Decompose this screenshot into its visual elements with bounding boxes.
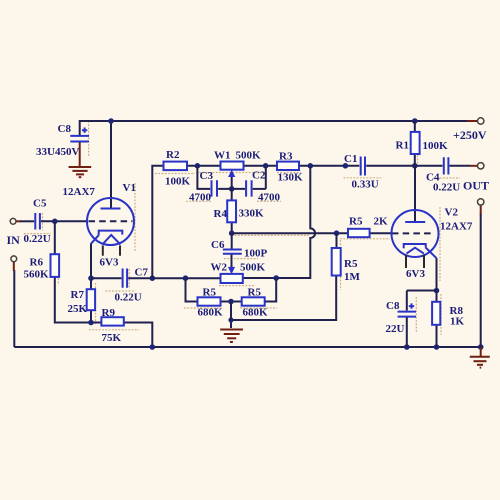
wire: V1 plate lead to rail xyxy=(110,121,112,209)
terminal OUT signal xyxy=(478,163,484,169)
svg-text:0.22U: 0.22U xyxy=(115,292,142,304)
node: junction R1 bottom / C4 / V2 plate xyxy=(412,163,418,169)
tube V2 plate xyxy=(405,221,425,223)
potentiometer W1 body xyxy=(221,162,244,170)
wire: C6 top lead xyxy=(231,233,233,248)
capacitor C8 (33U450V) top lead already in rail; plates xyxy=(70,136,89,142)
ground bottom right xyxy=(470,357,490,368)
wire: R5 2K right to V2 grid xyxy=(370,232,392,234)
wire: riser from R3 junction with hop over grid wire, down to W2 right xyxy=(243,166,315,278)
svg-text:100P: 100P xyxy=(244,248,268,260)
svg-text:C2: C2 xyxy=(252,170,266,182)
tube V2 heater xyxy=(407,248,424,254)
tan mark under 4700 right xyxy=(257,200,281,202)
resistor R2 xyxy=(164,162,188,171)
wire: maroon stub to +250V terminal xyxy=(467,120,477,122)
svg-text:R5: R5 xyxy=(203,287,217,299)
svg-text:4700: 4700 xyxy=(189,192,212,204)
wire: W1 wiper stem xyxy=(231,176,233,189)
node: junction R1 on rail xyxy=(412,118,418,124)
svg-text:0.22U: 0.22U xyxy=(433,182,460,194)
tan mark beside R6 xyxy=(57,265,59,285)
resistor R5 (2K) xyxy=(348,229,370,237)
svg-text:IN: IN xyxy=(7,233,21,247)
tan mark beside V1 xyxy=(134,183,136,251)
svg-text:OUT: OUT xyxy=(463,179,489,193)
svg-text:330K: 330K xyxy=(239,208,265,220)
wire: R4 bottom lead xyxy=(231,222,233,233)
svg-text:75K: 75K xyxy=(102,332,122,344)
resistor R7 xyxy=(87,289,95,310)
wire: maroon stub to OUT terminal xyxy=(470,165,477,167)
wire: R8 bottom lead xyxy=(436,325,438,347)
tan mark under W1 xyxy=(196,172,266,174)
tan mark under R3 xyxy=(277,172,301,174)
wire: maroon stub bottom right ground xyxy=(480,347,482,356)
wire: V1 grid dashed xyxy=(89,220,133,222)
wire: +250V top rail xyxy=(80,121,467,136)
capacitor C1 plates xyxy=(361,157,365,176)
svg-text:500K: 500K xyxy=(240,262,266,274)
tan mark under C7 xyxy=(106,290,136,292)
svg-text:V1: V1 xyxy=(123,182,136,194)
node: junction W2 left / R5 left branch xyxy=(183,275,189,281)
terminal +250V xyxy=(478,118,484,124)
wire: C4 right to OUT xyxy=(450,165,471,167)
node: junction at C1 left pin xyxy=(343,163,349,169)
svg-text:4700: 4700 xyxy=(258,192,281,204)
node: junction rail right corner xyxy=(478,344,484,350)
tan mark beside C7 xyxy=(128,269,130,288)
node: junction ground tee xyxy=(228,317,233,322)
tan mark beside R4 xyxy=(236,201,238,223)
tan mark beside R5 1M xyxy=(340,240,342,290)
wire: bottom ground rail xyxy=(14,346,480,348)
node: junction cathode / C7 / R7 xyxy=(88,275,94,281)
tan mark under R9 xyxy=(89,329,139,331)
node: junction R4 / C6 / grid wire xyxy=(229,230,235,236)
wire: R2 right to W1 left xyxy=(187,165,221,167)
arrow: W2 wiper arrowhead down xyxy=(228,267,235,274)
node: junction R9 net on rail xyxy=(150,344,156,350)
tan mark beside R7 xyxy=(95,283,97,324)
wire: OUT return riser xyxy=(480,214,482,347)
svg-text:0.33U: 0.33U xyxy=(352,179,379,191)
resistor R6 xyxy=(51,254,60,277)
svg-text:R5: R5 xyxy=(349,216,363,228)
svg-text:C3: C3 xyxy=(200,170,214,182)
wire: W1 right to R3 left xyxy=(244,165,278,167)
svg-text:100K: 100K xyxy=(423,140,449,152)
node: junction R5 pair centre xyxy=(228,299,234,305)
wire: V2 grid dashed xyxy=(392,232,433,234)
svg-text:R1: R1 xyxy=(396,140,409,152)
ground below C8 left xyxy=(69,167,92,177)
tube V2 heater pins xyxy=(406,255,424,269)
wire: left riser from IN return terminal xyxy=(13,270,15,347)
tan mark under 4700 left xyxy=(186,200,213,202)
node: junction C8 on rail xyxy=(404,344,410,350)
tube V1 heater pins xyxy=(103,245,120,255)
svg-text:W1: W1 xyxy=(214,150,231,162)
wire: R8 top lead xyxy=(436,291,438,302)
svg-text:R2: R2 xyxy=(166,149,180,161)
svg-text:R6: R6 xyxy=(30,257,44,269)
svg-text:33U450V: 33U450V xyxy=(36,146,79,158)
node: junction V2 cathode / C8 / R8 xyxy=(434,288,440,294)
tan mark under R2 xyxy=(155,173,195,175)
svg-text:560K: 560K xyxy=(24,269,50,281)
resistor R1 xyxy=(411,132,420,154)
resistor R4 xyxy=(227,200,236,222)
wire: R3 right to C1 xyxy=(299,165,359,167)
wire: IN to C5 xyxy=(20,220,34,222)
wire: R1 top lead xyxy=(414,121,416,132)
tube V1 envelope xyxy=(87,198,134,245)
svg-text:C8: C8 xyxy=(58,123,72,135)
resistor R3 xyxy=(277,162,299,170)
polarity + of C8 right xyxy=(409,303,414,308)
resistor R5 (1M) xyxy=(332,248,341,276)
node: junction W1 wiper / C3 / C2 / R4 xyxy=(229,186,235,192)
wire: C8 right bottom lead xyxy=(406,318,408,348)
capacitor C4 plates xyxy=(444,157,449,174)
svg-text:6V3: 6V3 xyxy=(100,257,119,269)
wire: R1 bottom lead xyxy=(414,154,416,166)
wire: maroon stub below IN return terminal xyxy=(13,262,15,271)
tan mark under R5 right xyxy=(240,307,277,309)
terminal IN return xyxy=(11,256,17,262)
svg-text:V2: V2 xyxy=(445,207,459,219)
wire: maroon stub C8 to ground xyxy=(79,143,81,167)
wire: node B to W2 left terminal xyxy=(152,277,220,279)
tan mark under C6 xyxy=(224,258,258,260)
wire: R9 right lead to bottom rail xyxy=(124,323,153,348)
wire: R5 centre drop to ground tee xyxy=(230,302,232,321)
tan mark under R5 left xyxy=(184,307,221,309)
wire: centre to C2 xyxy=(253,188,266,190)
wire: maroon stub from IN terminal xyxy=(16,220,21,222)
tube V1 cathode xyxy=(99,231,123,236)
svg-text:100K: 100K xyxy=(165,176,191,188)
wire: R7 bottom lead xyxy=(90,310,92,322)
wire: R5 pair centre link xyxy=(221,301,242,303)
node: junction R2 right / C3 branch xyxy=(195,163,201,169)
node: junction V1 plate on rail xyxy=(108,118,114,124)
capacitor C8 (22U) plates xyxy=(398,312,416,317)
svg-text:C1: C1 xyxy=(344,153,357,165)
tan mark beside C8 right xyxy=(415,297,417,333)
svg-text:C8: C8 xyxy=(386,300,400,312)
wire: V2 cathode lead down xyxy=(436,258,438,291)
wire: R6 bottom lead down and right to R9 net xyxy=(55,277,102,323)
arrow: W1 wiper arrowhead up xyxy=(228,170,235,177)
wire: drop W2 left to R5 left xyxy=(186,278,198,301)
svg-text:R4: R4 xyxy=(214,208,228,220)
tan mark beside C8 left xyxy=(88,121,90,157)
svg-text:C7: C7 xyxy=(135,267,149,279)
node: junction R3 right / riser to W2 xyxy=(308,163,314,169)
wire: V2 plate lead xyxy=(414,166,416,222)
resistor R5 right (680K) xyxy=(242,297,265,305)
tube V2 cathode exit diagonal xyxy=(426,248,437,259)
wire: grid net y233 to R5 2K xyxy=(232,232,348,234)
svg-text:W2: W2 xyxy=(211,262,228,274)
capacitor C3 plates xyxy=(212,180,218,196)
resistor R5 left (680K) xyxy=(198,297,221,305)
capacitor C7 plates xyxy=(123,269,128,288)
wire: V1 cathode lead down xyxy=(90,244,92,279)
svg-text:25K: 25K xyxy=(68,303,88,315)
svg-text:2K: 2K xyxy=(374,216,389,228)
tan mark beside C5 xyxy=(42,213,44,231)
wire: cathode node left to C8 xyxy=(407,290,437,292)
svg-text:12AX7: 12AX7 xyxy=(63,186,96,198)
wire: R6 top lead xyxy=(54,221,56,254)
tube V2 envelope xyxy=(392,210,439,257)
tan mark under C1 xyxy=(344,177,382,179)
svg-text:12AX7: 12AX7 xyxy=(440,221,473,233)
wire: OUT return riser maroon stub xyxy=(480,205,482,215)
tan mark beside R1 xyxy=(417,132,419,167)
svg-text:R9: R9 xyxy=(102,307,116,319)
wire: C5 to V1 grid xyxy=(41,220,88,222)
node: junction R8 on rail xyxy=(434,344,440,350)
wire: R2 right down to C3 xyxy=(197,166,210,189)
tube V2 cathode xyxy=(404,244,426,248)
wire: ground stub below R5 pair xyxy=(230,320,232,328)
resistor R8 xyxy=(432,302,440,325)
svg-text:0.22U: 0.22U xyxy=(24,233,51,245)
wire: C3 to centre wiper node xyxy=(218,188,245,190)
node: junction W1 right / C2 branch xyxy=(263,163,269,169)
tan mark box C5 value xyxy=(24,233,51,235)
wire: C8 right top lead xyxy=(406,291,408,311)
capacitor C5 plates xyxy=(35,213,40,230)
polarity + of C8 left xyxy=(82,128,87,133)
wire: C7 to node B xyxy=(128,277,152,279)
wire: drop W2 right to R5 right xyxy=(265,278,277,302)
svg-text:680K: 680K xyxy=(198,307,224,319)
tan mark beside V2 xyxy=(439,207,441,281)
terminal IN signal xyxy=(10,218,16,224)
capacitor C6 plates xyxy=(223,250,242,254)
resistor R9 xyxy=(101,317,123,325)
wire: C1 to C4 through R1 junction xyxy=(366,165,442,167)
svg-text:+250V: +250V xyxy=(453,128,487,142)
node: junction W2 right / R5 right branch xyxy=(273,275,279,281)
svg-text:1K: 1K xyxy=(450,316,465,328)
svg-text:1M: 1M xyxy=(344,271,361,283)
svg-text:R5: R5 xyxy=(344,258,358,270)
svg-text:680K: 680K xyxy=(243,307,269,319)
tan mark under grid wire y233 xyxy=(235,234,310,236)
terminal OUT return xyxy=(478,199,484,205)
svg-text:C6: C6 xyxy=(211,239,225,251)
svg-text:C5: C5 xyxy=(33,198,47,210)
node: junction R6 / R7 / R9 xyxy=(88,320,94,326)
wire: cathode junction to C7 xyxy=(91,277,121,279)
svg-text:R7: R7 xyxy=(71,289,85,301)
tube V1 plate xyxy=(101,208,121,210)
wire: feedback riser node B to R2 left xyxy=(152,166,163,278)
svg-text:500K: 500K xyxy=(236,150,262,162)
wire: R5 1M top lead xyxy=(336,233,338,248)
tan mark under W2 xyxy=(219,285,255,287)
tan mark under R5 2K xyxy=(340,238,390,240)
wire: C6 bottom lead to W2 wiper xyxy=(231,255,233,269)
node: junction B (C7 / W2 / feedback riser) xyxy=(150,275,156,281)
wire: R7 top lead xyxy=(90,278,92,289)
svg-text:22U: 22U xyxy=(386,323,405,335)
tube V1 cathode exit diagonal xyxy=(91,235,99,244)
wire: R4 top lead xyxy=(231,189,233,201)
tube V1 heater xyxy=(102,235,120,245)
capacitor C2 plates xyxy=(246,180,252,196)
node: junction C5 / R6 / grid xyxy=(52,219,58,225)
wire: C2 up to W1 right xyxy=(265,166,267,189)
svg-text:6V3: 6V3 xyxy=(406,268,425,280)
wire: R5 1M bottom lead down then left to ground node xyxy=(231,276,336,321)
svg-text:R5: R5 xyxy=(248,287,262,299)
node: junction R5 2K left / R5 1M top xyxy=(334,230,340,236)
potentiometer W2 body xyxy=(221,274,243,283)
tan mark beside R8 xyxy=(440,294,442,335)
svg-text:R3: R3 xyxy=(279,151,293,163)
ground below R5 pair xyxy=(220,330,243,343)
tan mark under C4 xyxy=(433,177,460,179)
svg-text:130K: 130K xyxy=(278,172,304,184)
